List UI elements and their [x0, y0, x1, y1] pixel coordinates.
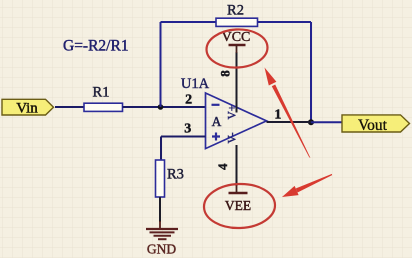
- wire Vin to R1: [55, 106, 84, 108]
- plus mark: [212, 133, 220, 141]
- svg-text:4: 4: [215, 163, 230, 170]
- wire feedback top right: [258, 21, 312, 23]
- annotation arrow toward VEE: [282, 174, 332, 197]
- annotation ellipse around VEE: [203, 183, 275, 229]
- op-amp U1A: [181, 76, 267, 149]
- power port VCC: [222, 30, 251, 53]
- junction node output: [308, 119, 314, 125]
- minus mark: [212, 104, 220, 106]
- wire R3 to GND: [159, 197, 161, 222]
- svg-text:G=-R2/R1: G=-R2/R1: [63, 38, 129, 55]
- wire feedback right vertical: [310, 22, 312, 122]
- wire pin 3 horizontal: [161, 136, 206, 138]
- power port VEE: [225, 185, 251, 213]
- svg-text:R1: R1: [93, 85, 110, 101]
- wire feedback top left: [161, 21, 217, 23]
- svg-text:R3: R3: [167, 167, 184, 183]
- svg-text:8: 8: [218, 70, 233, 77]
- wire junction to Vout port: [311, 121, 342, 123]
- port Vout: [342, 115, 410, 134]
- wire R1 to op-amp pin 2: [123, 106, 206, 108]
- pin 1 output stub: [267, 121, 312, 123]
- svg-text:Vin: Vin: [16, 101, 38, 117]
- svg-text:A: A: [212, 114, 222, 129]
- svg-text:U1A: U1A: [181, 76, 210, 92]
- svg-text:1: 1: [274, 108, 281, 123]
- wire pin3 corner down to R3: [160, 137, 162, 161]
- pin 8 wire (V+): [236, 52, 238, 113]
- svg-text:V-: V-: [227, 132, 239, 143]
- svg-text:VEE: VEE: [225, 198, 251, 213]
- svg-text:3: 3: [184, 121, 191, 136]
- svg-text:2: 2: [185, 93, 192, 108]
- annotation ellipse around VCC: [206, 28, 269, 69]
- annotation arrow toward VCC: [265, 68, 311, 158]
- svg-text:VCC: VCC: [222, 30, 251, 45]
- svg-text:R2: R2: [227, 3, 244, 19]
- port Vin: [2, 99, 54, 116]
- ground GND symbol: [146, 229, 178, 257]
- svg-text:Vout: Vout: [358, 117, 388, 134]
- resistor R1: [84, 85, 123, 112]
- resistor R2: [216, 3, 258, 27]
- svg-text:GND: GND: [147, 242, 176, 257]
- resistor R3: [156, 160, 184, 197]
- wire feedback left vertical: [160, 22, 162, 107]
- junction node A (inverting input): [158, 104, 164, 110]
- pin 4 wire (V-): [236, 145, 238, 186]
